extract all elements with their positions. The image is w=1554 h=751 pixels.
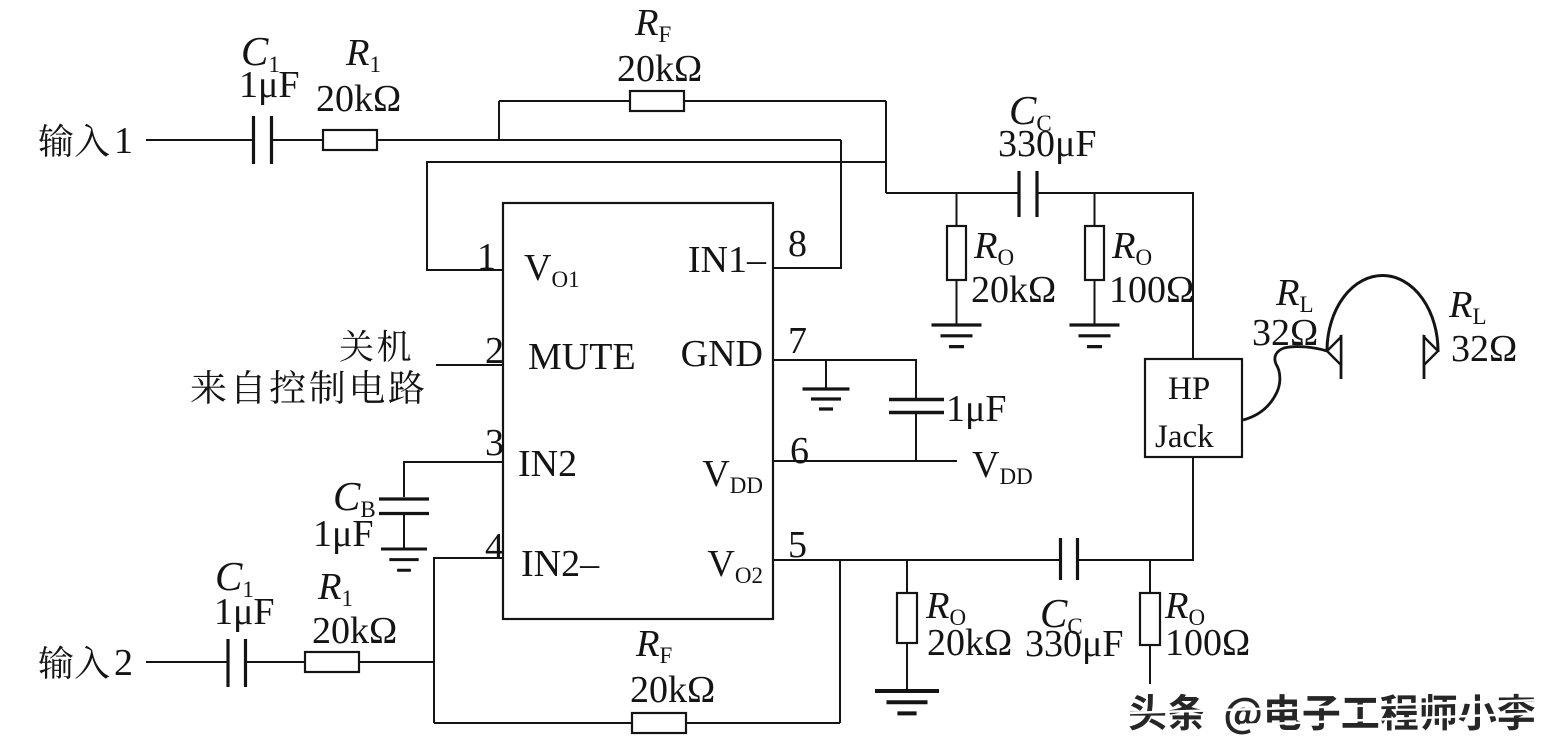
label RO (top 20k)	[973, 225, 1014, 270]
label R1 (bottom)	[317, 566, 353, 611]
svg-text:20kΩ: 20kΩ	[617, 48, 702, 90]
pin label MUTE	[528, 336, 636, 378]
label 1μF (bottom C1)	[214, 591, 275, 633]
label RO (top 100)	[1111, 225, 1152, 270]
watermark 头条 @电子工程师小李	[1128, 694, 1545, 735]
wire RO 20k bottom lead	[906, 560, 908, 690]
svg-text:20kΩ: 20kΩ	[630, 669, 715, 711]
svg-text:R1: R1	[345, 32, 381, 77]
ground CB	[381, 549, 427, 570]
wire bypass cap to pin 6	[773, 414, 957, 461]
label 20kΩ (bottom RF)	[630, 669, 715, 711]
wire pin 3 to CB	[404, 462, 503, 497]
svg-text:330μF: 330μF	[1025, 623, 1124, 665]
svg-text:32Ω: 32Ω	[1252, 312, 1318, 354]
label C1 (top)	[241, 28, 280, 77]
wire pin 4 loop down	[434, 558, 503, 723]
svg-text:RO: RO	[1111, 225, 1152, 270]
svg-text:20kΩ: 20kΩ	[316, 78, 401, 120]
svg-text:1μF: 1μF	[239, 64, 300, 106]
ground RO 20k bottom	[875, 691, 939, 713]
svg-text:8: 8	[788, 223, 807, 265]
svg-text:100Ω: 100Ω	[1165, 622, 1250, 664]
label RO (bottom 100)	[1164, 585, 1205, 630]
resistor RF (bottom)	[632, 713, 686, 733]
svg-text:1μF: 1μF	[214, 591, 275, 633]
svg-text:1: 1	[114, 120, 133, 162]
ground pin 7	[803, 389, 850, 409]
wire mute to pin 2	[436, 364, 503, 366]
capacitor CB	[379, 499, 429, 514]
svg-text:32Ω: 32Ω	[1451, 328, 1517, 370]
label 32Ω (left)	[1252, 312, 1318, 354]
svg-text:3: 3	[485, 422, 504, 464]
label RF (bottom)	[635, 623, 672, 668]
wire RF1 right vertical (VO1 node)	[885, 101, 887, 193]
label 20kΩ (top RF)	[617, 48, 702, 90]
pin 7 number	[788, 320, 807, 362]
resistor RF (top)	[630, 91, 684, 111]
svg-text:R1: R1	[317, 566, 353, 611]
label R1 (top)	[345, 32, 381, 77]
wire RF2 right vertical	[839, 560, 841, 723]
headphone band	[1327, 276, 1438, 352]
svg-text:330μF: 330μF	[998, 123, 1097, 165]
pin label VO1	[524, 247, 580, 292]
pin 1 number	[477, 236, 496, 278]
label 330μF (top)	[998, 123, 1097, 165]
label 1μF (bypass)	[946, 388, 1007, 430]
label 20kΩ (bottom RO)	[927, 622, 1012, 664]
wire input1 to C1	[146, 139, 252, 141]
capacitor 1μF bypass	[889, 400, 944, 413]
label RF (top)	[634, 2, 671, 47]
wire RF2 bottom	[434, 722, 840, 724]
label 20kΩ (bottom R1)	[312, 610, 397, 652]
pin label VO2	[707, 543, 763, 588]
label CC (bottom)	[1040, 590, 1083, 639]
resistor RO 20k (bottom)	[897, 593, 917, 643]
ground RO 100 top	[1070, 325, 1120, 347]
pin 5 number	[788, 524, 807, 566]
label RO (bottom 20k)	[925, 585, 966, 630]
label 20kΩ (top RO)	[971, 269, 1056, 311]
svg-text:RF: RF	[635, 623, 672, 668]
label 1μF (top C1)	[239, 64, 300, 106]
label Jack	[1155, 419, 1214, 455]
svg-text:IN2: IN2	[518, 443, 577, 485]
wire RO 100 bottom lead	[1149, 560, 1151, 684]
capacitor CC bottom	[1061, 538, 1078, 580]
label HP	[1168, 371, 1210, 407]
wire RF1 top	[499, 100, 886, 102]
wire VO1 output	[886, 193, 1193, 359]
left earpiece RL	[1327, 335, 1341, 379]
node 输入2 (input 2 label)	[39, 642, 133, 684]
right earpiece RL	[1424, 335, 1438, 379]
svg-text:GND: GND	[681, 333, 763, 375]
node VDD label	[972, 444, 1033, 489]
svg-text:Jack: Jack	[1155, 419, 1214, 455]
svg-text:RF: RF	[634, 2, 671, 47]
label 100Ω (top)	[1109, 269, 1194, 311]
pin 8 number	[788, 223, 807, 265]
pin 3 number	[485, 422, 504, 464]
node 输入1 (input 1 label)	[39, 120, 133, 162]
capacitor C1 top	[254, 116, 272, 164]
resistor R1 (top)	[323, 130, 377, 150]
resistor RO 100 (bottom)	[1140, 593, 1160, 645]
svg-text:100Ω: 100Ω	[1109, 269, 1194, 311]
resistor RO 100 (top)	[1085, 226, 1104, 280]
svg-text:RL: RL	[1448, 284, 1487, 329]
wire RF1 left vertical	[498, 101, 500, 140]
label CC (top)	[1009, 87, 1052, 136]
resistor R1 (bottom)	[305, 652, 359, 672]
label C1 (bottom)	[215, 553, 254, 602]
ground RO 20k top	[932, 325, 982, 347]
svg-text:1: 1	[477, 236, 496, 278]
svg-text:IN1–: IN1–	[688, 239, 767, 281]
svg-text:VDD: VDD	[972, 444, 1033, 489]
svg-text:RO: RO	[973, 225, 1014, 270]
wire pin 7 to bypass cap	[773, 360, 916, 399]
svg-text:RL: RL	[1275, 272, 1314, 317]
label RL (right)	[1448, 284, 1487, 329]
wire pin7 ground stem	[825, 360, 827, 389]
headphone cable	[1243, 347, 1327, 420]
label RL (left)	[1275, 272, 1314, 317]
svg-text:20kΩ: 20kΩ	[971, 269, 1056, 311]
capacitor CC top	[1019, 171, 1037, 217]
pin label IN2−	[521, 543, 600, 585]
capacitor C1 bottom	[228, 639, 246, 687]
pin label IN1−	[688, 239, 767, 281]
label 100Ω (bottom)	[1165, 622, 1250, 664]
label CB	[333, 473, 376, 522]
label 1μF (CB)	[313, 513, 374, 555]
wire VO1 loop	[427, 162, 886, 270]
wire CB to ground	[403, 515, 405, 549]
pin label IN2	[518, 443, 577, 485]
pin 4 number	[485, 526, 504, 568]
IC U1 body	[503, 203, 773, 619]
pin 2 number	[485, 330, 504, 372]
pin label GND	[681, 333, 763, 375]
pin label VDD	[702, 453, 763, 498]
node 来自控制电路 label	[191, 370, 424, 404]
wire RO 100 top lead	[1094, 193, 1096, 325]
wire pin 5 output	[773, 457, 1193, 560]
wire C1 to R1 to node A	[272, 139, 841, 141]
node 关机 label	[340, 330, 410, 362]
svg-text:1μF: 1μF	[313, 513, 374, 555]
svg-text:2: 2	[114, 642, 133, 684]
wire input2 to C1	[146, 661, 227, 663]
label 330μF (bottom)	[1025, 623, 1124, 665]
svg-text:1μF: 1μF	[946, 388, 1007, 430]
svg-text:6: 6	[790, 430, 809, 472]
wire C1 to R1 to pin4 node	[246, 661, 434, 663]
svg-text:4: 4	[485, 526, 504, 568]
HP jack box	[1145, 359, 1242, 457]
pin 6 number	[790, 430, 809, 472]
resistor RO 20k (top)	[947, 226, 966, 280]
svg-text:HP: HP	[1168, 371, 1210, 407]
wire node A down to pin 8	[773, 140, 841, 268]
svg-text:MUTE: MUTE	[528, 336, 636, 378]
wire RO 20k top lead	[956, 193, 958, 325]
svg-text:20kΩ: 20kΩ	[312, 610, 397, 652]
label 32Ω (right)	[1451, 328, 1517, 370]
svg-text:20kΩ: 20kΩ	[927, 622, 1012, 664]
svg-text:7: 7	[788, 320, 807, 362]
svg-text:IN2–: IN2–	[521, 543, 600, 585]
label 20kΩ (top R1)	[316, 78, 401, 120]
